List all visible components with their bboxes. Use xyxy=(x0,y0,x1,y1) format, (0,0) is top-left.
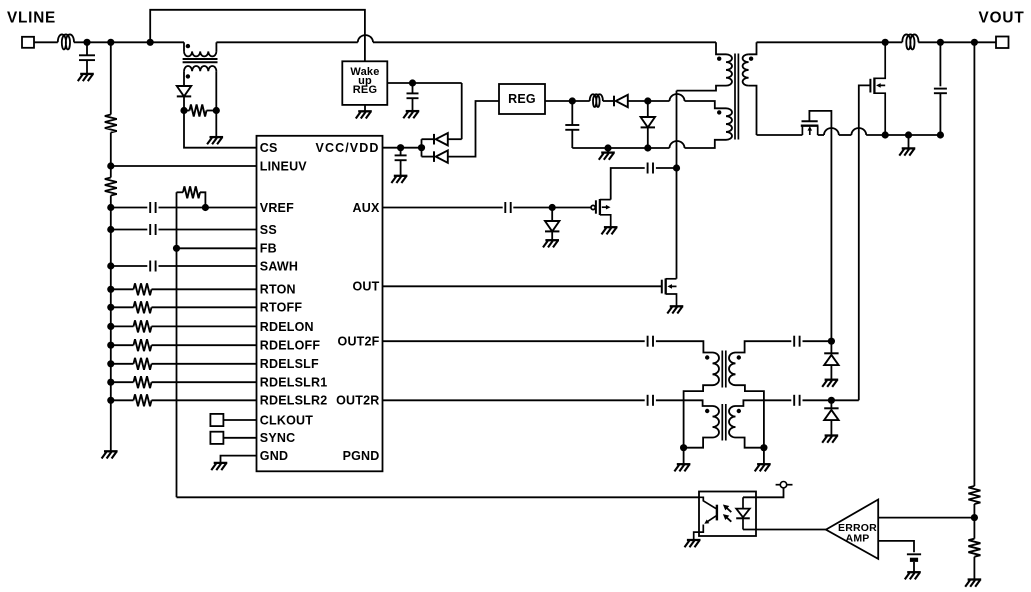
node FB xyxy=(173,245,180,252)
wire capacitor to IC VREF xyxy=(159,207,257,209)
opto light arrows xyxy=(723,505,731,522)
wire D4 to node xyxy=(628,100,648,102)
svg-text:RTOFF: RTOFF xyxy=(260,301,303,315)
node top loop xyxy=(147,39,154,46)
ground D8 xyxy=(822,436,838,443)
wire C11 to gate node xyxy=(803,340,832,342)
wire rail to resistor RTON xyxy=(111,288,134,290)
wire hop main rail over wake-up wire xyxy=(358,35,373,42)
transistor Q2 xyxy=(591,199,611,227)
svg-text:RDELOFF: RDELOFF xyxy=(260,339,321,353)
capacitor SS xyxy=(150,224,155,235)
capacitor VREF xyxy=(150,202,155,213)
resistor RDELSLR2 xyxy=(134,394,152,406)
wire rail to capacitor SS xyxy=(111,229,148,231)
svg-text:VREF: VREF xyxy=(260,201,294,215)
capacitor C14 xyxy=(907,554,921,560)
wire LED cathode to error amp xyxy=(743,529,826,531)
wire OUT pin xyxy=(383,285,662,287)
node rail SAWH xyxy=(107,262,114,269)
wire CLKOUT xyxy=(223,419,256,421)
resistor RDELSLF xyxy=(134,358,152,370)
terminal CLKOUT xyxy=(210,414,223,426)
wire LED anode to bias terminal xyxy=(743,488,784,497)
wire FB net to optocoupler xyxy=(177,496,700,498)
wire left rail upper xyxy=(110,42,112,114)
node rail ground tap xyxy=(604,144,611,151)
capacitor C13 xyxy=(794,395,799,406)
wire D3 anode to REG xyxy=(448,101,499,157)
T1 polarity dot secondary xyxy=(749,57,753,61)
T2F core xyxy=(721,351,723,388)
node rail RDELSLR2 xyxy=(107,397,114,404)
capacitor C1 xyxy=(86,42,88,55)
node divider xyxy=(971,514,978,521)
capacitor C4 xyxy=(400,148,402,156)
svg-text:OUT2R: OUT2R xyxy=(336,394,379,408)
diode D6 xyxy=(551,208,553,222)
wire to lower primary xyxy=(685,101,727,108)
transformer TS core xyxy=(183,58,218,60)
inductor L3 xyxy=(590,94,603,107)
svg-text:SYNC: SYNC xyxy=(260,431,296,445)
diode D3 xyxy=(434,150,448,162)
TS polarity dot primary xyxy=(186,44,190,48)
node M1 drain xyxy=(882,39,889,46)
node rail RTOFF xyxy=(107,304,114,311)
node output cap xyxy=(937,39,944,46)
wire REG output xyxy=(545,100,590,102)
wire VCC/VDD pin xyxy=(383,147,422,149)
node D1 cathode xyxy=(180,107,187,114)
wire switch drain vertical xyxy=(676,91,678,279)
wire CS net xyxy=(184,111,257,148)
ground C4 xyxy=(391,176,407,183)
transformer TS secondary winding xyxy=(184,66,216,71)
wire FB vertical xyxy=(176,192,178,497)
wire D2 anode xyxy=(448,138,462,140)
node C9 bottom xyxy=(937,131,944,138)
T2R primary winding xyxy=(713,406,720,438)
wire M1 gate xyxy=(859,85,871,400)
wire bottom output rail xyxy=(757,134,803,136)
resistor RDELSLR1 xyxy=(134,376,152,388)
wire OUT2R pin xyxy=(383,399,645,401)
wire FB to IC xyxy=(177,247,257,249)
wire cap to Q2 drain xyxy=(611,168,645,200)
wire rail to resistor RDELSLF xyxy=(111,363,134,365)
wire rail lower xyxy=(110,196,112,451)
wire AUX pin xyxy=(383,207,503,209)
wire rail mid xyxy=(110,133,112,178)
node rail RTON xyxy=(107,286,114,293)
svg-text:CLKOUT: CLKOUT xyxy=(260,413,313,427)
wire GND pin xyxy=(221,456,257,463)
optocoupler phototransistor xyxy=(694,497,717,539)
wire rail to resistor RDELSLR1 xyxy=(111,381,134,383)
wire LINEUV to IC xyxy=(111,165,257,167)
wire L3 to D4 xyxy=(603,100,614,102)
error amp U3 xyxy=(826,500,878,559)
wire top output rail xyxy=(757,41,903,43)
svg-text:CS: CS xyxy=(260,141,278,155)
wire TS secondary right down xyxy=(215,71,217,110)
wire resistor to IC RDELSLR1 xyxy=(152,381,257,383)
ground TS xyxy=(207,137,223,144)
wire node to hop xyxy=(648,100,670,102)
svg-text:LINEUV: LINEUV xyxy=(260,159,308,173)
wire resistor to IC RTOFF xyxy=(152,306,257,308)
inductor L2 xyxy=(902,34,918,49)
wake-up REG box xyxy=(342,61,387,105)
node rail RDELSLF xyxy=(107,360,114,367)
wire T2F secondary out xyxy=(736,341,792,352)
wire SYNC xyxy=(223,437,256,439)
resistor R2 xyxy=(105,178,117,196)
node VOUT divider xyxy=(971,39,978,46)
ground output rail xyxy=(908,135,910,148)
capacitor C11 xyxy=(794,336,799,347)
node wake output xyxy=(409,79,416,86)
wire cap to T2R primary xyxy=(656,400,713,406)
T2F polarity dot secondary xyxy=(737,355,741,359)
wire divider lower xyxy=(973,557,975,580)
T1 polarity dot upper primary xyxy=(717,57,721,61)
opto LED xyxy=(736,497,750,529)
resistor R1 xyxy=(105,115,117,133)
resistor R3 FB-VREF xyxy=(177,191,184,193)
T1 secondary winding xyxy=(749,42,757,54)
ground GND pin xyxy=(211,463,227,470)
ground D7 xyxy=(822,380,838,387)
node T2 left ground xyxy=(680,444,687,451)
node rail RDELOFF xyxy=(107,342,114,349)
wire L2 to VOUT xyxy=(918,41,996,43)
node left rail top xyxy=(107,39,114,46)
svg-text:RDELSLR1: RDELSLR1 xyxy=(260,376,328,390)
wire hop rail over M1 gate xyxy=(851,128,866,135)
ground opto emitter xyxy=(685,540,701,547)
resistor RDELOFF xyxy=(134,339,152,351)
wire rail to capacitor SAWH xyxy=(111,265,148,267)
node rail RDELON xyxy=(107,323,114,330)
transistor M2 xyxy=(801,121,819,135)
svg-text:GND: GND xyxy=(260,449,288,463)
wire rail mid segment xyxy=(839,134,852,136)
capacitor C3 xyxy=(412,83,414,93)
node gate M2 xyxy=(828,338,835,345)
wire divider mid xyxy=(973,504,975,539)
svg-text:AMP: AMP xyxy=(846,532,870,544)
diode D2 xyxy=(434,133,448,145)
wire capacitor to IC SS xyxy=(159,229,257,231)
wire T2R secondary return xyxy=(736,438,764,448)
resistor R4 across xyxy=(184,110,190,112)
ground Q2 source xyxy=(602,227,618,234)
node R3 to VREF xyxy=(202,204,209,211)
svg-text:SS: SS xyxy=(260,223,277,237)
transformer TS primary winding xyxy=(183,42,185,51)
terminal bias xyxy=(776,482,793,488)
svg-text:PGND: PGND xyxy=(343,449,380,463)
wire resistor to IC RDELSLF xyxy=(152,363,257,365)
wire resistor to IC RDELON xyxy=(152,325,257,327)
capacitor C6 xyxy=(648,163,653,174)
svg-text:REG: REG xyxy=(508,92,536,106)
node rail VREF xyxy=(107,204,114,211)
wire hop rail over M2 gate xyxy=(824,128,839,135)
wire hop ground rail xyxy=(670,141,685,148)
svg-text:REG: REG xyxy=(353,84,377,96)
node VCC diodes xyxy=(418,144,425,151)
ground Q3 source xyxy=(667,306,683,313)
wire rail gap segments xyxy=(216,41,357,43)
node REG out cap xyxy=(569,97,576,104)
svg-text:FB: FB xyxy=(260,242,277,256)
wire rail to capacitor VREF xyxy=(111,207,148,209)
wire rail under M2 drain side xyxy=(818,134,824,136)
ground wake-up REG xyxy=(364,105,366,111)
svg-text:SAWH: SAWH xyxy=(260,259,298,273)
capacitor C10 xyxy=(648,336,653,347)
wire rail to resistor RDELOFF xyxy=(111,344,134,346)
node zener to rail xyxy=(644,144,651,151)
wire M2 gate xyxy=(809,111,831,341)
capacitor C12 xyxy=(648,395,653,406)
wire capacitor to IC SAWH xyxy=(159,265,257,267)
wire rail right segment xyxy=(866,134,940,136)
wire T2R secondary out xyxy=(736,400,792,406)
capacitor SAWH xyxy=(150,261,155,272)
diode D8 xyxy=(830,400,832,408)
capacitor C9 xyxy=(939,42,941,86)
resistor RDELON xyxy=(134,320,152,332)
node TS secondary right xyxy=(213,107,220,114)
diode D7 xyxy=(830,341,832,353)
optocoupler U2 body xyxy=(699,492,756,537)
T2R secondary winding xyxy=(729,406,736,438)
wire cap to drain xyxy=(656,167,677,169)
T1 polarity dot lower primary xyxy=(717,110,721,114)
wire resistor to IC RDELOFF xyxy=(152,344,257,346)
resistor RTON xyxy=(134,283,152,295)
node rail SS xyxy=(107,226,114,233)
terminal SYNC xyxy=(210,432,223,444)
ground REG rail xyxy=(607,148,609,152)
T1 core xyxy=(734,54,736,140)
terminal VOUT xyxy=(996,37,1009,49)
node rail RDELSLR1 xyxy=(107,379,114,386)
wire rail to lower primary bottom xyxy=(685,140,727,148)
T2R polarity dot secondary xyxy=(737,409,741,413)
wire to dual diodes xyxy=(421,139,423,156)
wire wake-up REG output xyxy=(387,82,461,84)
wire wake output down to D2 xyxy=(461,83,463,139)
transistor Q3 xyxy=(662,278,677,306)
T2R core xyxy=(721,404,723,441)
wire error amp input lower xyxy=(878,541,914,552)
node input cap xyxy=(83,39,90,46)
svg-text:RDELSLF: RDELSLF xyxy=(260,357,319,371)
IC U1 body xyxy=(257,136,383,472)
T2F primary winding xyxy=(713,352,720,385)
T1 lower primary winding xyxy=(726,108,732,140)
resistor R5 xyxy=(968,486,980,504)
transistor M1 xyxy=(870,42,885,135)
wire VOUT divider upper xyxy=(973,42,975,486)
wire C13 to gate node xyxy=(803,399,859,401)
svg-text:VCC/VDD: VCC/VDD xyxy=(316,141,380,155)
node M1 source xyxy=(882,131,889,138)
node T2 right ground xyxy=(760,444,767,451)
wire resistor to IC RTON xyxy=(152,288,257,290)
svg-text:AUX: AUX xyxy=(353,201,380,215)
wire TS secondary left to diode D1 xyxy=(183,71,185,86)
wire rail to resistor RTOFF xyxy=(111,306,134,308)
TS polarity dot secondary xyxy=(186,74,190,78)
ground T2 left xyxy=(683,448,685,464)
node LINEUV xyxy=(107,162,114,169)
svg-text:OUT2F: OUT2F xyxy=(338,335,380,349)
ground divider xyxy=(965,580,981,587)
svg-text:RDELON: RDELON xyxy=(260,320,314,334)
wire terminal to L1 xyxy=(34,41,58,43)
wire OUT2F pin xyxy=(383,340,645,342)
wire top loop to wake-up REG xyxy=(150,10,365,62)
wire T2R primary return xyxy=(684,438,713,448)
ground C1 xyxy=(78,74,94,81)
wire resistor to IC RDELSLR2 xyxy=(152,399,257,401)
wire rail to resistor RDELSLR2 xyxy=(111,399,134,401)
inductor L1 xyxy=(58,34,74,49)
node AUX zener xyxy=(549,204,556,211)
ground T2 right xyxy=(763,448,765,464)
wire to Q2 gate xyxy=(552,207,591,209)
T2F secondary winding xyxy=(729,352,736,385)
node gate M1 xyxy=(828,397,835,404)
node drain cap xyxy=(673,164,680,171)
svg-text:RDELSLR2: RDELSLR2 xyxy=(260,394,328,408)
wire T2F secondary return xyxy=(736,385,764,448)
wire cap to T2F primary xyxy=(656,341,713,352)
svg-text:VLINE: VLINE xyxy=(7,10,56,27)
wire rail to resistor RDELON xyxy=(111,325,134,327)
capacitor C5 xyxy=(571,101,573,125)
svg-text:OUT: OUT xyxy=(353,280,380,294)
T2R polarity dot primary xyxy=(705,409,709,413)
node VCC cap xyxy=(397,144,404,151)
wire cap to zener node xyxy=(513,207,552,209)
wire REG ground rail xyxy=(572,147,669,149)
wire error amp input upper xyxy=(878,517,974,519)
ground D6 xyxy=(543,240,559,247)
resistor RTOFF xyxy=(134,301,152,313)
capacitor C7 xyxy=(505,202,510,213)
resistor R6 xyxy=(968,539,980,557)
svg-text:VOUT: VOUT xyxy=(979,9,1025,26)
node rail ground xyxy=(905,131,912,138)
T1 upper primary winding xyxy=(716,42,726,54)
terminal VLINE xyxy=(22,37,34,48)
diode D5 xyxy=(647,101,649,117)
ground left rail xyxy=(102,451,118,458)
wire hop over drain line (top) xyxy=(670,94,685,101)
diode D4 xyxy=(614,95,628,107)
ground C14 xyxy=(905,572,921,579)
T2F polarity dot primary xyxy=(705,355,709,359)
REG box xyxy=(499,84,545,114)
diode D1 xyxy=(177,86,191,96)
wire L1 to transformer TS xyxy=(74,41,184,43)
svg-text:RTON: RTON xyxy=(260,283,296,297)
ground C3 xyxy=(403,111,419,118)
node D4 zener xyxy=(644,97,651,104)
wire T2F primary return xyxy=(684,385,713,448)
